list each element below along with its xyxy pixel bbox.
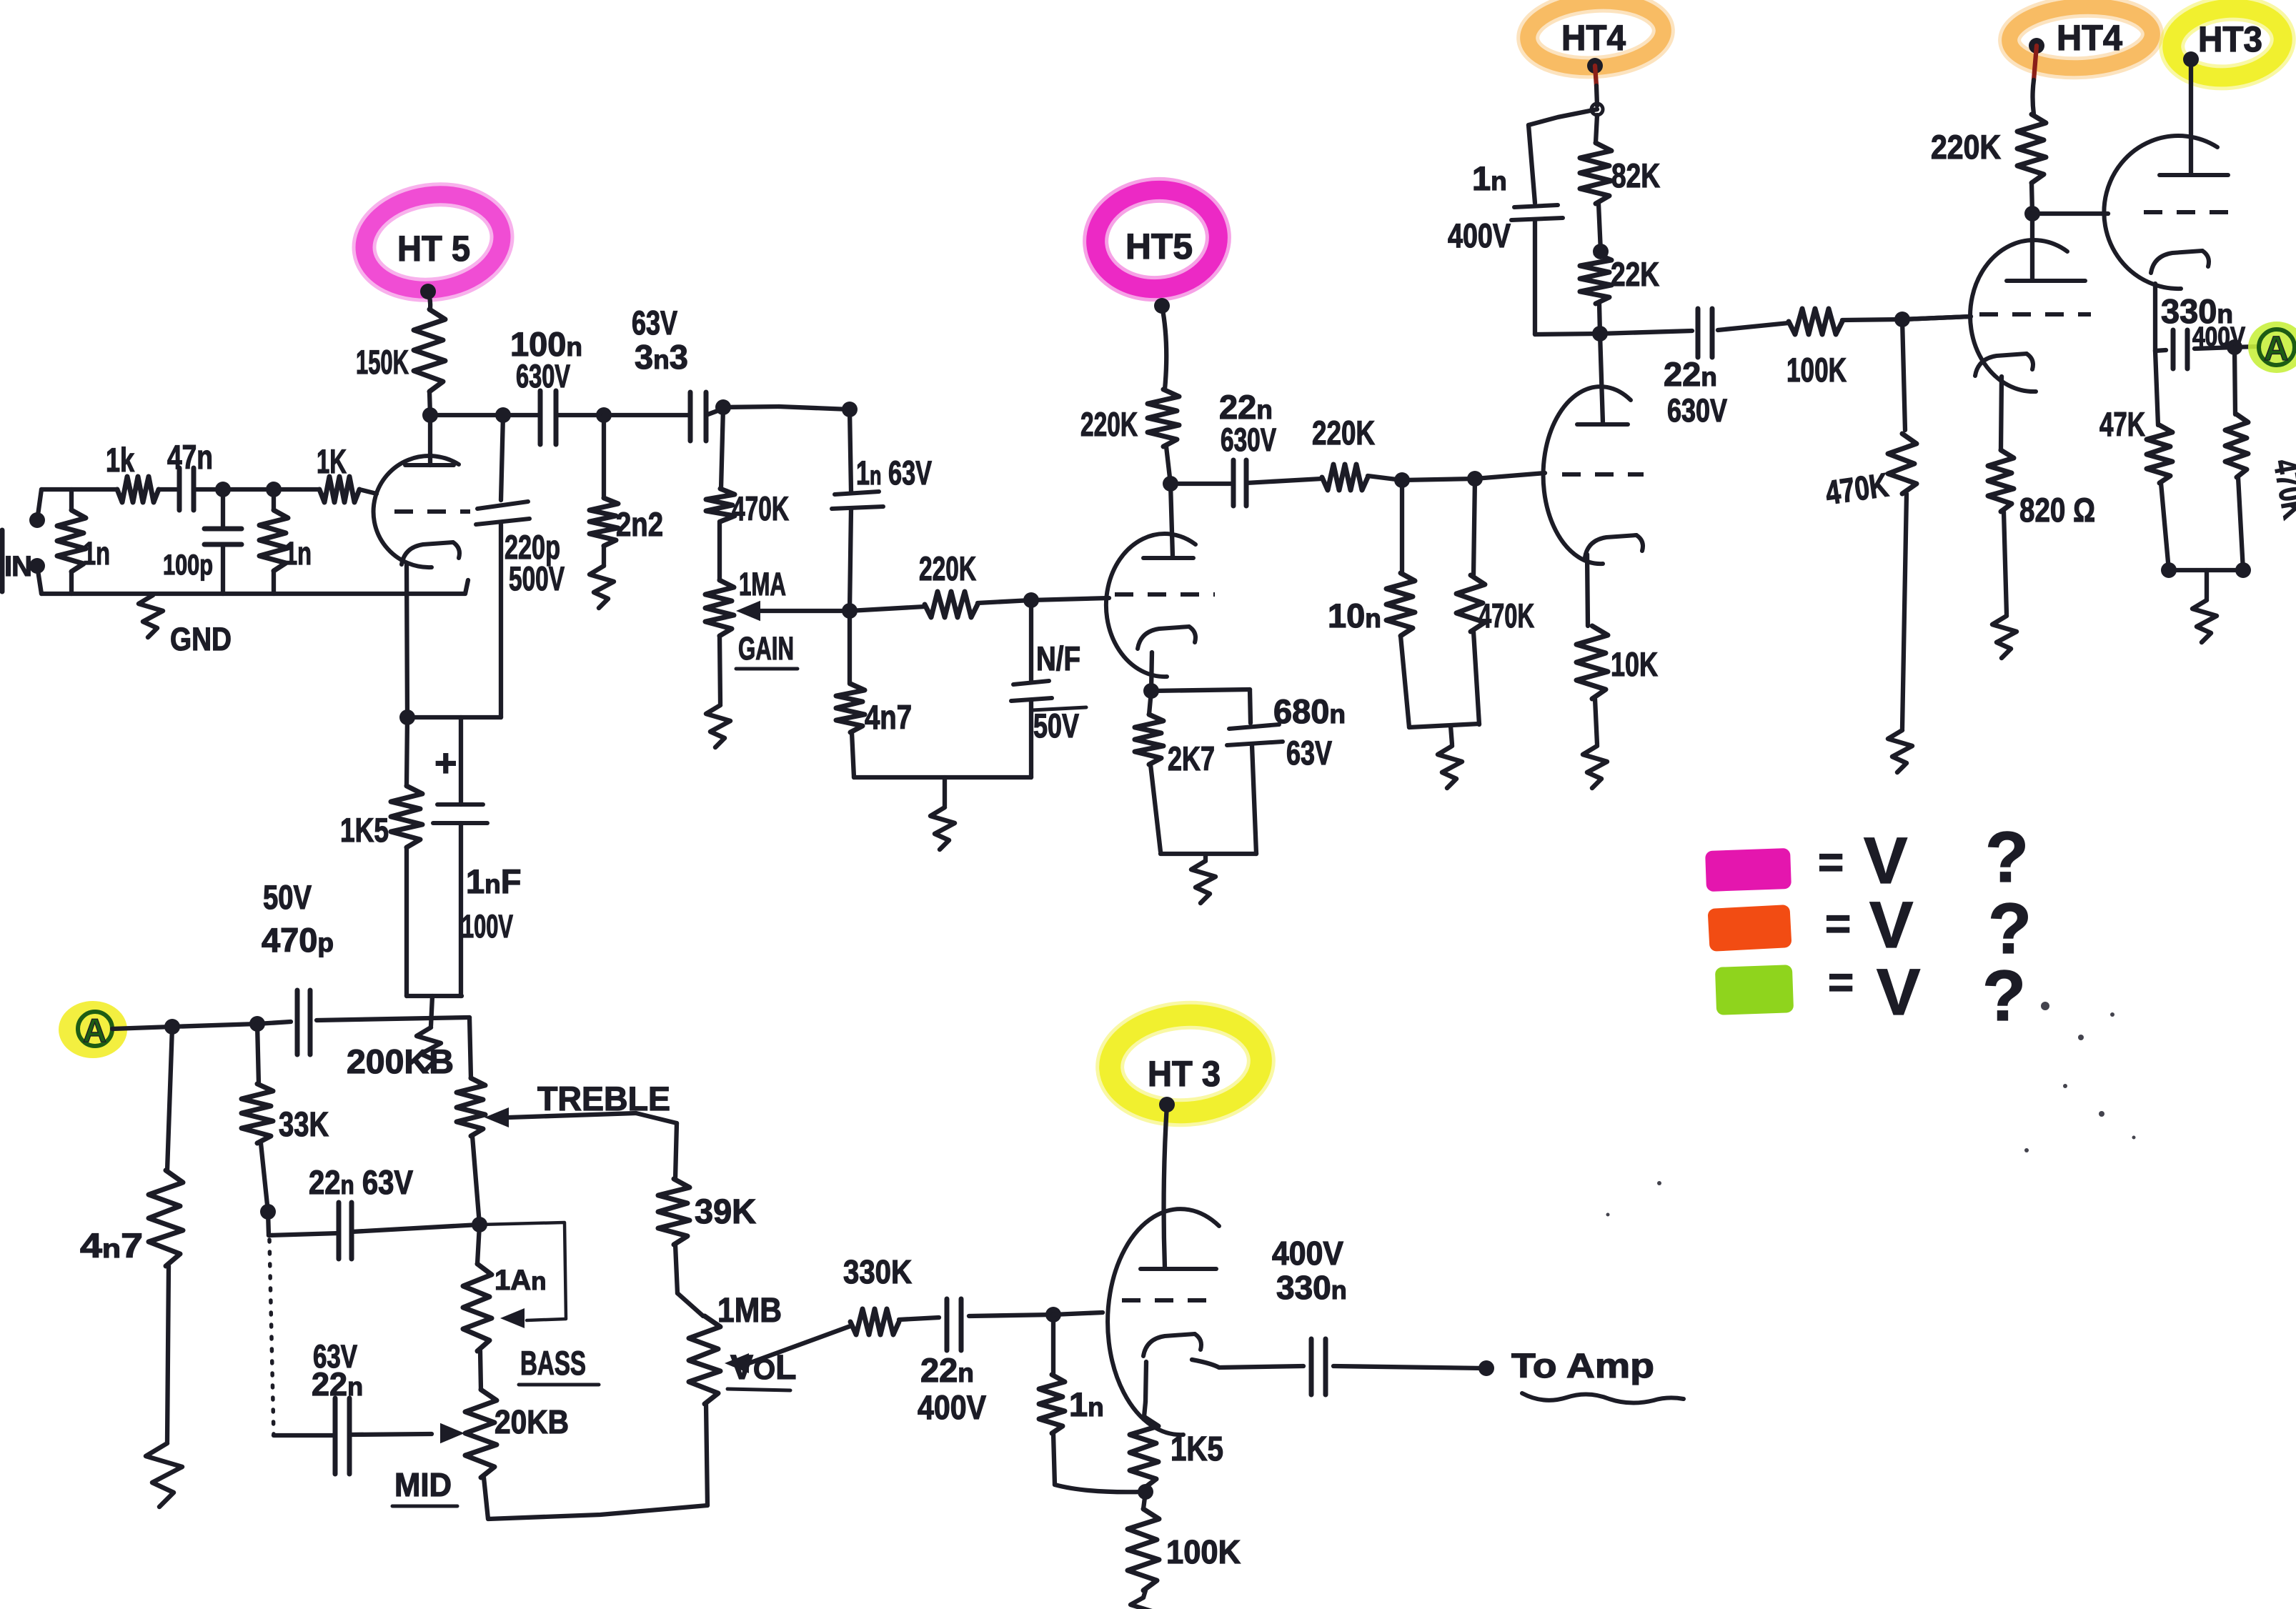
svg-text:39K: 39K xyxy=(695,1193,756,1231)
svg-text:630V: 630V xyxy=(1667,392,1727,429)
svg-text:100K: 100K xyxy=(1166,1533,1241,1570)
svg-text:33K: 33K xyxy=(279,1106,329,1144)
svg-text:500V: 500V xyxy=(509,559,565,597)
svg-text:63V: 63V xyxy=(632,304,677,342)
svg-text:20KB: 20KB xyxy=(495,1403,569,1440)
svg-text:VOL: VOL xyxy=(730,1349,796,1387)
svg-text:V: V xyxy=(1864,825,1907,897)
svg-text:V: V xyxy=(1877,956,1920,1029)
svg-text:22n: 22n xyxy=(312,1366,363,1403)
svg-text:=: = xyxy=(1828,958,1854,1007)
svg-text:150K: 150K xyxy=(356,343,409,381)
svg-text:1n 63V: 1n 63V xyxy=(856,454,932,492)
svg-text:22n 63V: 22n 63V xyxy=(309,1163,414,1201)
svg-text:1K: 1K xyxy=(317,442,347,480)
svg-text:1K5: 1K5 xyxy=(1171,1430,1223,1468)
svg-text:400V: 400V xyxy=(2192,322,2246,352)
svg-text:22K: 22K xyxy=(1611,255,1659,293)
svg-text:2n2: 2n2 xyxy=(616,505,663,543)
svg-text:MID: MID xyxy=(394,1466,452,1503)
svg-text:To Amp: To Amp xyxy=(1511,1348,1654,1385)
svg-text:1MB: 1MB xyxy=(717,1292,782,1330)
svg-text:220K: 220K xyxy=(919,549,976,587)
svg-text:4n7: 4n7 xyxy=(865,698,912,736)
svg-text:63V: 63V xyxy=(1286,734,1332,772)
svg-text:1n: 1n xyxy=(83,535,110,572)
svg-text:2K7: 2K7 xyxy=(1168,739,1215,777)
svg-text:50V: 50V xyxy=(263,878,312,916)
svg-text:A: A xyxy=(83,1012,106,1049)
svg-text:GND: GND xyxy=(170,621,232,657)
svg-text:BASS: BASS xyxy=(520,1344,586,1382)
svg-text:630V: 630V xyxy=(516,358,570,394)
svg-text:1n: 1n xyxy=(284,535,312,572)
svg-text:400V: 400V xyxy=(1448,216,1511,254)
svg-text:V: V xyxy=(1869,889,1913,962)
svg-text:1MA: 1MA xyxy=(739,566,786,602)
svg-text:1K5: 1K5 xyxy=(340,811,389,849)
svg-text:100K: 100K xyxy=(1786,351,1847,389)
svg-text:630V: 630V xyxy=(1221,422,1276,458)
svg-text:820 Ω: 820 Ω xyxy=(2019,491,2095,529)
svg-text:47K: 47K xyxy=(2099,405,2145,443)
svg-text:IN: IN xyxy=(4,551,31,582)
svg-text:200KB: 200KB xyxy=(347,1042,454,1080)
svg-text:GAIN: GAIN xyxy=(738,630,794,667)
svg-text:470K: 470K xyxy=(732,489,789,527)
svg-text:?: ? xyxy=(1982,956,2026,1036)
svg-text:220K: 220K xyxy=(1080,405,1138,443)
svg-text:+: + xyxy=(434,742,457,784)
svg-text:1k: 1k xyxy=(106,441,135,479)
svg-text:TREBLE: TREBLE xyxy=(537,1080,670,1117)
svg-text:10K: 10K xyxy=(1611,645,1658,683)
svg-text:82K: 82K xyxy=(1611,156,1660,194)
svg-text:100p: 100p xyxy=(163,549,213,581)
svg-text:HT4: HT4 xyxy=(2057,18,2122,58)
svg-text:400V: 400V xyxy=(1272,1235,1343,1272)
svg-text:=: = xyxy=(1825,900,1851,949)
svg-text:100V: 100V xyxy=(462,908,513,945)
svg-text:=: = xyxy=(1818,838,1844,887)
svg-text:50V: 50V xyxy=(1033,707,1079,744)
svg-text:1An: 1An xyxy=(495,1265,547,1296)
svg-text:HT5: HT5 xyxy=(1125,226,1193,266)
svg-text:330K: 330K xyxy=(843,1253,912,1290)
svg-text:HT4: HT4 xyxy=(1561,18,1626,58)
svg-text:400V: 400V xyxy=(918,1388,987,1426)
svg-text:470K: 470K xyxy=(1479,597,1534,634)
svg-text:220K: 220K xyxy=(1931,128,2001,166)
svg-text:A: A xyxy=(2264,330,2289,368)
svg-text:?: ? xyxy=(1985,817,2029,897)
svg-text:47n: 47n xyxy=(167,438,213,476)
svg-text:N/F: N/F xyxy=(1036,639,1080,677)
svg-text:HT 3: HT 3 xyxy=(1148,1054,1221,1094)
svg-text:220K: 220K xyxy=(1312,414,1375,452)
svg-text:HT 5: HT 5 xyxy=(397,229,470,269)
svg-text:HT3: HT3 xyxy=(2198,19,2262,59)
